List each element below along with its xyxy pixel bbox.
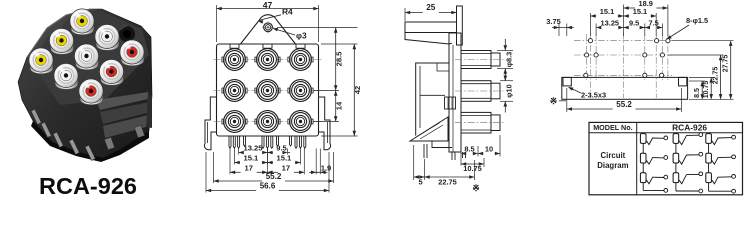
RCA jack photo red row3 (79, 79, 103, 105)
side view rear body (416, 63, 456, 136)
dim 17a (230, 163, 267, 174)
dim 13.25 tv (596, 19, 623, 30)
dim 10 side (478, 144, 500, 155)
reference mark side (472, 183, 480, 193)
RCA jack photo yellow row1 (70, 9, 94, 35)
side view wedge bracket (410, 117, 452, 148)
RCA jack photo white row1 (95, 24, 119, 50)
dim 42 (353, 44, 362, 136)
jack front view r3c1 (222, 111, 247, 133)
dim 10.75 tv (703, 77, 713, 99)
svg-text:φ10: φ10 (505, 84, 514, 98)
jack front view r1c3 (288, 49, 313, 71)
side view barrel 8.3 top (455, 51, 504, 69)
3D product photo: RCA-926 jack block (18, 9, 152, 162)
svg-text:17: 17 (244, 163, 252, 172)
svg-text:47: 47 (263, 0, 273, 10)
right mounting bracket front view (319, 97, 331, 150)
dim 56.6 (206, 182, 329, 193)
top view pin holes 8-φ1.5 (584, 39, 670, 78)
table text RCA-926 (672, 123, 707, 133)
dim 55.2 front (214, 172, 334, 183)
dim 25 side (405, 6, 457, 22)
svg-text:13.25: 13.25 (601, 19, 620, 28)
dim 17b (267, 163, 304, 174)
svg-text:5: 5 (418, 178, 422, 187)
RCA jack photo red row1 (120, 40, 144, 66)
svg-text:9.5: 9.5 (629, 19, 639, 28)
circuit jack column 1 (640, 134, 667, 193)
extension lines top view right dims (668, 41, 734, 100)
top edge slots (230, 44, 305, 48)
jack front view r3c3 (288, 111, 313, 133)
leader φ3 (273, 28, 307, 41)
left mounting bracket front view (204, 97, 216, 150)
top view slot left 3.5x3 (563, 77, 571, 86)
solder pins (31, 109, 95, 160)
svg-text:10: 10 (485, 144, 493, 153)
RCA jack photo yellow row3 (29, 48, 53, 74)
svg-text:10.75: 10.75 (703, 81, 710, 99)
dim 18.9 (624, 0, 668, 10)
table text MODEL No. (593, 123, 632, 132)
leader 2-3.5x3 (568, 87, 606, 100)
dim φ10 (500, 70, 514, 113)
svg-text:Diagram: Diagram (597, 161, 628, 170)
extension lines front top (217, 5, 319, 42)
svg-text:56.6: 56.6 (260, 182, 276, 191)
side view vertical tab plate (457, 6, 463, 45)
dim 8.5 tv (694, 81, 704, 99)
svg-text:3.75: 3.75 (546, 17, 560, 26)
svg-text:8.5: 8.5 (464, 144, 474, 153)
side view main plate (449, 33, 461, 152)
svg-text:42: 42 (353, 86, 362, 94)
svg-text:φ3: φ3 (296, 31, 307, 41)
dim 25 (405, 3, 457, 14)
svg-text:15.1: 15.1 (600, 7, 614, 16)
jack front view r3c2 (255, 111, 280, 133)
svg-text:1.9: 1.9 (321, 163, 332, 172)
svg-text:RCA-926: RCA-926 (672, 123, 707, 133)
svg-text:10.75: 10.75 (463, 164, 482, 173)
dim 9.5f (267, 144, 290, 155)
black corner post (119, 26, 135, 42)
svg-text:15.1: 15.1 (277, 154, 293, 163)
svg-text:※: ※ (472, 183, 480, 193)
svg-text:22.75: 22.75 (712, 67, 719, 85)
side view barrel 10 mid (455, 81, 504, 102)
svg-text:Circuit: Circuit (601, 151, 626, 160)
svg-text:14: 14 (334, 101, 343, 110)
svg-text:25: 25 (426, 3, 436, 12)
dim 13.25 (239, 144, 268, 155)
side view top bracket (405, 22, 457, 44)
solder pins front view (229, 136, 306, 148)
dim 15.1a (235, 154, 268, 165)
dim 9.5 tv (624, 19, 645, 30)
side view barrel 10 bottom (455, 112, 504, 133)
dim 22.75 side (425, 175, 475, 179)
side view pins (424, 144, 466, 160)
dim 10.75 side (461, 162, 484, 173)
svg-text:28.5: 28.5 (334, 51, 343, 67)
svg-text:27.75: 27.75 (723, 55, 730, 73)
svg-text:※: ※ (550, 96, 558, 106)
dim 15.1b (267, 154, 300, 165)
svg-text:22.75: 22.75 (438, 178, 457, 187)
front view body (217, 44, 319, 136)
circuit jack column 2 (673, 133, 703, 193)
top view slot right 3.5x3 (679, 77, 687, 86)
extension lines front bottom (206, 149, 334, 193)
RCA jack photo red row2 (99, 59, 123, 85)
svg-text:55.2: 55.2 (616, 100, 632, 109)
leader R4 (258, 7, 293, 24)
jack front view r1c2 (255, 49, 280, 71)
svg-text:7.5: 7.5 (648, 19, 658, 28)
extension lines top view dims (559, 5, 668, 37)
row centerlines (214, 60, 322, 122)
svg-text:R4: R4 (282, 7, 293, 17)
dim 15.1 tv b (624, 7, 657, 18)
RCA jack photo white row2 (74, 44, 98, 70)
jack front view r1c1 (222, 49, 247, 71)
dim φ8.3 (497, 39, 514, 80)
dim 15.1 tv a (590, 7, 623, 18)
dim 55.2 tv (567, 100, 682, 111)
dim 47 (217, 0, 319, 10)
extension lines side bottom (414, 135, 500, 180)
metal bracket lower right (96, 92, 152, 150)
dim 28.5 (334, 28, 343, 91)
svg-text:MODEL No.: MODEL No. (593, 123, 632, 132)
svg-text:15.1: 15.1 (633, 7, 647, 16)
svg-text:55.2: 55.2 (266, 172, 282, 181)
extension lines front right (277, 28, 358, 137)
dim 22.75 tv (712, 55, 722, 99)
circuit jack column 3 (706, 134, 736, 194)
dim 27.75 tv (723, 41, 733, 100)
svg-text:φ8.3: φ8.3 (505, 52, 514, 68)
caption RCA-926 (39, 173, 137, 199)
svg-text:8-φ1.5: 8-φ1.5 (686, 16, 708, 25)
table border (589, 122, 743, 194)
svg-text:8.5: 8.5 (694, 88, 701, 98)
jack front view r2c2 (255, 80, 280, 102)
RCA jack photo white row3 (54, 63, 78, 89)
RCA jack photo yellow row2 (49, 28, 73, 54)
leader 8-φ1.5 (666, 16, 708, 40)
svg-text:2-3.5x3: 2-3.5x3 (581, 91, 606, 100)
reference mark top view (550, 96, 566, 106)
svg-text:RCA-926: RCA-926 (39, 173, 137, 196)
svg-text:17: 17 (282, 163, 290, 172)
dim 3.75 (552, 26, 574, 30)
top view centerlines (574, 33, 672, 98)
dim 5 side (414, 175, 425, 179)
front view mounting tab with hole (241, 15, 296, 44)
extension lines 55.2 tv (567, 88, 682, 112)
dim 1.9 (309, 171, 327, 175)
dim 8.5 side (461, 144, 478, 155)
top view body (562, 77, 688, 99)
jack front view r2c3 (288, 80, 313, 102)
svg-text:15.1: 15.1 (244, 154, 260, 163)
svg-text:13.25: 13.25 (243, 144, 263, 153)
jack front view r2c1 (222, 80, 247, 102)
table text Circuit Diagram (597, 151, 628, 170)
dim 14 (334, 91, 343, 122)
svg-text:9.5: 9.5 (276, 144, 287, 153)
dim 7.5 tv (645, 19, 663, 30)
